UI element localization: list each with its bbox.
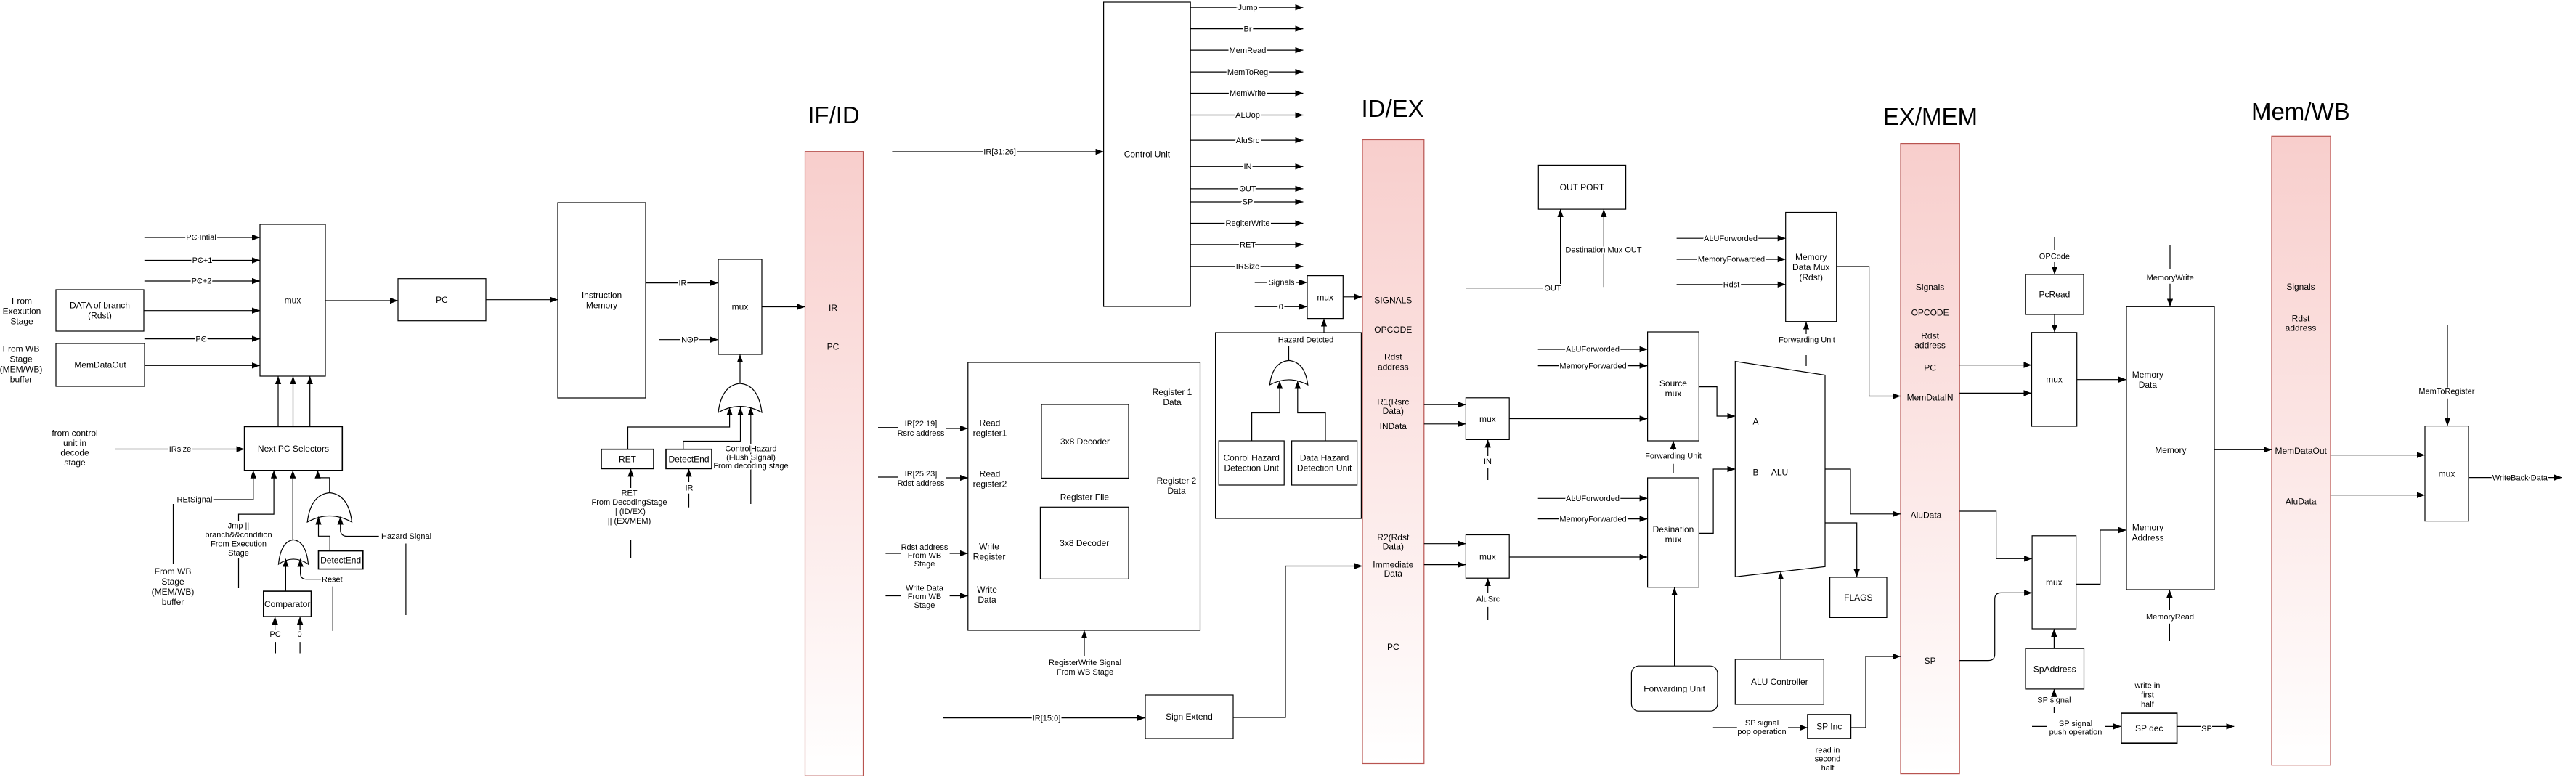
svg-text:ALU Controller: ALU Controller [1751, 677, 1808, 687]
svg-text:PC: PC [1924, 363, 1936, 373]
wire gate2 to selectors [318, 471, 330, 493]
svg-text:mux: mux [285, 296, 301, 306]
net label PC+2 [192, 277, 212, 286]
port label Read register1 [973, 418, 1007, 439]
svg-text:mux: mux [732, 302, 749, 312]
svg-text:Br: Br [1244, 25, 1252, 33]
block MemDataOut [56, 343, 145, 386]
svg-text:Destination Mux OUT: Destination Mux OUT [1565, 246, 1641, 255]
svg-text:mux: mux [2439, 468, 2455, 479]
svg-text:WriteData: WriteData [977, 585, 997, 605]
port label Write Register [973, 542, 1006, 562]
Mem/WB stage title [2251, 98, 2350, 125]
wire below Hazard Signal [405, 544, 407, 616]
block Hazard Detection outer [1216, 333, 1362, 518]
net label MemoryForwarded mdm [1698, 256, 1765, 264]
svg-text:Forwarding Unit: Forwarding Unit [1645, 452, 1702, 461]
svg-text:ID/EX: ID/EX [1361, 95, 1423, 122]
net label MemoryForwarded src [1559, 362, 1626, 370]
mux WB writeback [2425, 426, 2469, 521]
svg-text:IR: IR [686, 484, 694, 492]
net label Br [1244, 25, 1252, 33]
wire Memory Data Mux to EX/MEM MemDataIN [1837, 267, 1901, 396]
wire below Forwarding Unit mdm [1805, 355, 1807, 366]
ID/EX row label INData [1380, 421, 1407, 431]
wire AluSrc to EX mux2 [1487, 578, 1489, 593]
wire Comparator to gate1 [285, 559, 286, 592]
wire below Forwarding Unit src [1673, 464, 1674, 473]
svg-text:Data HazardDetection Unit: Data HazardDetection Unit [1297, 453, 1352, 473]
wire Source mux to ALU A [1699, 387, 1735, 416]
net label Signals [1268, 278, 1295, 287]
wire below AluSrc [1487, 607, 1489, 620]
annotation RET From DecodingStage [592, 489, 667, 526]
svg-text:Signals: Signals [1268, 278, 1295, 287]
svg-text:DetectEnd: DetectEnd [668, 454, 709, 464]
wire INData to EX mux1 [1424, 423, 1466, 425]
svg-text:SP: SP [1925, 656, 1936, 666]
wire below PC [275, 642, 276, 653]
svg-text:PC: PC [1387, 642, 1399, 652]
wire ALU Controller to ALU [1780, 571, 1781, 659]
wire control signal RET [1190, 244, 1303, 245]
wire mux to PC [325, 300, 398, 301]
wire SpAddress to MEM mux2 [2053, 629, 2055, 648]
ID/EX row label Immediate Data [1373, 560, 1413, 579]
svg-text:PC: PC [195, 335, 206, 343]
svg-text:mux: mux [2046, 375, 2063, 385]
net label OUT [1544, 284, 1561, 293]
or-gate hazard combine [1269, 360, 1308, 385]
net label MemRead [1230, 46, 1267, 55]
wire IRsize into Next PC Selectors [115, 449, 244, 450]
block 3x8 Decoder lower [1040, 507, 1129, 579]
wire below 0 [299, 642, 301, 653]
wire MemoryRead to Memory [2169, 590, 2170, 610]
wire PC to MEM mux [1959, 365, 2031, 366]
svg-text:IRSize: IRSize [1236, 263, 1259, 272]
net label Forwarding Unit src [1645, 452, 1702, 461]
block OUT PORT [1538, 165, 1625, 209]
wire MemDataOut to mux [145, 365, 260, 366]
net label AluSrc [1476, 595, 1500, 603]
wire control signal SP [1190, 201, 1303, 203]
wire above OPCode [2054, 237, 2055, 250]
net label IR[31:26] [983, 148, 1016, 157]
wire ControlHazard to flush gate [750, 407, 752, 504]
wire MemoryForwarded to Desination mux [1538, 518, 1648, 520]
mux Desination [1648, 478, 1699, 587]
svg-text:MemDataOut: MemDataOut [2275, 446, 2328, 456]
EX/MEM stage title [1883, 103, 1978, 130]
svg-text:3x8 Decoder: 3x8 Decoder [1060, 538, 1109, 548]
wire signal mux to ID/EX bar [1343, 296, 1362, 298]
net label RET [1240, 241, 1256, 250]
svg-text:WriteBack Data: WriteBack Data [2492, 473, 2548, 482]
wire Rdst address arrow [950, 553, 968, 554]
mux MEM sp/address [2032, 536, 2076, 629]
wire 0 into signal mux [1255, 306, 1307, 307]
net label MemoryRead [2146, 613, 2194, 622]
block Memory [2126, 306, 2214, 590]
svg-text:MemoryForwarded: MemoryForwarded [1559, 515, 1626, 524]
ID/EX row label Rdst address [1378, 352, 1409, 373]
IF/ID pipeline register bar [805, 152, 864, 776]
svg-text:Control Unit: Control Unit [1124, 150, 1171, 160]
wire SP dec out stub [2177, 725, 2201, 727]
net label Write Data From WB Stage [906, 585, 944, 610]
svg-text:OPCODE: OPCODE [1911, 308, 1949, 318]
net label PC [195, 335, 206, 343]
mux EX operand A [1466, 398, 1509, 440]
svg-text:Next PC Selectors: Next PC Selectors [258, 444, 329, 454]
wire IF mux to IF/ID bar [762, 306, 805, 308]
Mem/WB row label MemDataOut [2275, 446, 2328, 456]
wire control signal IRSize [1190, 266, 1303, 267]
wire PC Intial into mux [145, 237, 260, 238]
block Next PC Selectors [245, 426, 343, 470]
svg-text:Hazard Detcted: Hazard Detcted [1278, 336, 1333, 345]
svg-text:AluSrc: AluSrc [1476, 595, 1500, 603]
net label SP signal push operation [2049, 720, 2102, 737]
or-gate flush [718, 383, 762, 412]
port label Memory Data [2132, 370, 2163, 390]
svg-text:IN: IN [1484, 457, 1492, 466]
svg-text:B: B [1752, 468, 1758, 478]
wire stub SP signal push [2032, 725, 2047, 727]
net label IR[25:23] Rdst address [898, 470, 945, 488]
wire MEM mux2 to Memory Address [2076, 530, 2126, 584]
wire DetectEnd2 to gate2 [319, 517, 330, 551]
block 3x8 Decoder upper [1041, 404, 1129, 478]
net label IN [1244, 163, 1252, 171]
mux signals/hazard [1307, 276, 1343, 319]
wire Rdst to Memory Data Mux [1677, 284, 1786, 285]
svg-text:OPCODE: OPCODE [1374, 325, 1412, 335]
net label RegiterWrite [1226, 219, 1270, 228]
wire stub IR[22:19] [878, 427, 898, 428]
net label Forwarding Unit mdm [1779, 336, 1835, 345]
net label WriteBack Data [2492, 473, 2548, 482]
svg-text:mux: mux [2046, 577, 2063, 587]
wire OPCode to PcRead [2054, 262, 2055, 274]
wire MemoryWrite to Memory [2169, 284, 2171, 307]
wire selector0 to mux [277, 376, 279, 426]
svg-text:PC Intial: PC Intial [186, 234, 216, 243]
ID/EX row label R1(Rsrc Data) [1377, 397, 1409, 417]
wire control signal Br [1190, 28, 1303, 30]
block Forwarding Unit [1631, 666, 1718, 711]
net label SP out [2201, 725, 2212, 733]
wire RET to flush gate [628, 407, 730, 449]
wire Reset to gate1 [301, 559, 321, 579]
EX/MEM row label PC [1924, 363, 1936, 373]
wire Forwarding Unit to Source mux [1673, 441, 1674, 450]
svg-text:MemToReg: MemToReg [1227, 68, 1268, 77]
wire ALU to FLAGS [1825, 523, 1857, 577]
svg-text:3x8 Decoder: 3x8 Decoder [1060, 436, 1110, 447]
ID/EX row label R2(Rdst Data) [1377, 532, 1410, 552]
svg-text:RET: RET [619, 454, 637, 464]
wire MemDataIN to MEM mux [1959, 392, 2031, 394]
svg-text:MemDataIN: MemDataIN [1907, 393, 1954, 403]
wire control signal IN [1190, 166, 1303, 167]
svg-text:INData: INData [1380, 421, 1407, 431]
mux next-PC selector [260, 224, 325, 376]
wire PC into Comparator [275, 617, 276, 630]
ID/EX row label OPCODE [1374, 325, 1412, 335]
svg-text:RET: RET [1240, 241, 1256, 250]
Mem/WB row label Signals [2286, 282, 2315, 292]
wire hazard detected to signal mux [1323, 319, 1325, 333]
svg-text:RegiterWrite: RegiterWrite [1226, 219, 1270, 228]
wire MemoryForwarded to Memory Data Mux [1677, 259, 1786, 260]
svg-text:IR[31:26]: IR[31:26] [983, 148, 1016, 157]
net label IR under DetectEnd [686, 484, 694, 492]
net label OUT [1239, 185, 1256, 194]
svg-text:Comparator: Comparator [264, 599, 310, 609]
wire Jmp to selectors [239, 471, 275, 521]
wire SP signal pop arrow [1788, 727, 1808, 728]
wire Memory MemDataOut to Mem/WB [2214, 449, 2272, 450]
svg-text:InstructionMemory: InstructionMemory [582, 290, 622, 311]
net label Rdst mdm [1723, 281, 1740, 290]
wire NOP to IF mux [659, 339, 718, 341]
wire IR to IF mux [646, 282, 718, 284]
block FLAGS [1830, 577, 1887, 617]
Mem/WB row label Rdst address [2286, 314, 2317, 333]
annotation From WB Stage (MEM/WB) buffer lower [152, 566, 195, 607]
svg-text:SpAddress: SpAddress [2033, 664, 2076, 674]
annotation From Exexution Stage [3, 296, 41, 326]
wire PcRead to MEM mux [2054, 314, 2055, 333]
block Data Hazard Detection Unit [1292, 441, 1357, 485]
svg-text:Forwarding Unit: Forwarding Unit [1779, 336, 1835, 345]
wire control signal ALUop [1190, 115, 1303, 116]
svg-text:NOP: NOP [681, 335, 699, 344]
block SpAddress [2026, 648, 2084, 689]
net label REtSignal [177, 496, 213, 505]
svg-text:Conrol HazardDetection Unit: Conrol HazardDetection Unit [1224, 453, 1280, 473]
wire control signal AluSrc [1190, 139, 1303, 141]
svg-text:PC: PC [269, 630, 280, 639]
svg-text:MemDataOut: MemDataOut [74, 360, 126, 370]
wire DetectEnd to flush gate [683, 407, 741, 449]
net label IR[22:19] Rsrc address [898, 420, 945, 438]
svg-text:EX/MEM: EX/MEM [1883, 103, 1978, 130]
wire IR[22:19] arrow [946, 428, 968, 429]
wire MemDataOut to WB mux [2331, 455, 2425, 456]
svg-text:MemoryRead: MemoryRead [2146, 613, 2194, 622]
block Conrol Hazard Detection Unit [1219, 441, 1284, 485]
svg-text:MemoryAddress: MemoryAddress [2132, 523, 2163, 543]
wire RET source arrow [630, 468, 632, 488]
block DATA of branch (Rdst) [56, 290, 144, 331]
svg-text:MemToRegister: MemToRegister [2418, 388, 2474, 396]
net label PC Intial [186, 234, 216, 243]
mux Source [1648, 332, 1699, 441]
svg-text:Sign Extend: Sign Extend [1166, 712, 1213, 722]
svg-text:SIGNALS: SIGNALS [1374, 296, 1412, 306]
net label ALUop [1235, 111, 1260, 120]
wire AluData to WB mux [2331, 495, 2425, 496]
net label ALUForworded mdm [1704, 235, 1758, 243]
mux Memory Data Mux (Rdst) [1786, 213, 1837, 322]
svg-text:MemoryForwarded: MemoryForwarded [1559, 362, 1626, 370]
svg-text:A: A [1752, 417, 1758, 427]
wire Forwarding Unit box to Desination mux [1674, 587, 1675, 667]
wire below RET annotation [630, 540, 632, 558]
EX/MEM row label Rdst address [1914, 331, 1946, 351]
net label IR[15:0] [1033, 714, 1061, 723]
svg-text:Reset: Reset [322, 575, 343, 584]
net label ControlHazard (Flush Signal) From decoding stage [713, 445, 788, 471]
svg-text:0: 0 [1279, 303, 1283, 312]
svg-text:ALU: ALU [1771, 468, 1788, 478]
port label Write Data [977, 585, 997, 605]
wire selector1 to mux [293, 376, 294, 426]
svg-text:SP signal: SP signal [2037, 696, 2071, 705]
block SP Inc [1808, 715, 1850, 739]
net label MemToRegister [2418, 388, 2474, 396]
wire 0 into Comparator [299, 617, 301, 630]
port label Memory Address [2132, 523, 2163, 543]
net label Reset [322, 575, 343, 584]
wire MEM mux to Memory [2077, 379, 2126, 381]
annotation RegisterWrite Signal From WB Stage [1049, 659, 1121, 677]
wire SP out arrow [2212, 725, 2234, 727]
svg-text:PcRead: PcRead [2039, 290, 2071, 300]
svg-text:SP: SP [2201, 725, 2212, 733]
pin label A [1752, 417, 1758, 427]
svg-text:Signals: Signals [1916, 282, 1944, 293]
ID/EX stage title [1361, 95, 1423, 122]
net label IN [1484, 457, 1492, 466]
ID/EX row label SIGNALS [1374, 296, 1412, 306]
block RET [601, 449, 654, 469]
wire below MemoryRead [2169, 624, 2170, 641]
wire below IR label [688, 494, 690, 508]
EX/MEM row label Signals [1916, 282, 1944, 293]
block DetectEnd [666, 449, 712, 469]
ID/EX pipeline register bar [1362, 140, 1424, 764]
svg-text:PC+1: PC+1 [192, 256, 213, 265]
svg-text:Memory: Memory [2155, 445, 2186, 455]
svg-text:Forwarding Unit: Forwarding Unit [1643, 683, 1705, 693]
wire IR to DetectEnd [688, 468, 690, 482]
wire stub IR[25:23] [878, 476, 898, 478]
net label IRSize [1236, 263, 1259, 272]
wire gate3 up [1288, 346, 1290, 360]
svg-text:ALUForworded: ALUForworded [1704, 235, 1758, 243]
svg-text:IR[15:0]: IR[15:0] [1033, 714, 1061, 723]
wire SP signal push arrow [2105, 725, 2121, 727]
alu ALU [1735, 362, 1825, 577]
net label MemToReg [1227, 68, 1268, 77]
or-gate comparator-reset [279, 540, 309, 564]
svg-text:0: 0 [297, 630, 301, 639]
wire Hazard Signal to gate2 [341, 517, 379, 537]
svg-text:ALUForworded: ALUForworded [1566, 346, 1620, 354]
svg-text:IN: IN [1244, 163, 1252, 171]
wire Destination Mux OUT vertical [1603, 209, 1604, 287]
wire Signals into signal mux [1255, 282, 1307, 283]
wire OUT to OUT PORT [1466, 209, 1561, 288]
net label AluSrc [1236, 137, 1260, 145]
svg-text:mux: mux [1479, 552, 1496, 562]
wire EX mux2 to Desination mux [1509, 556, 1647, 558]
svg-text:Mem/WB: Mem/WB [2251, 98, 2350, 125]
svg-text:FLAGS: FLAGS [1844, 593, 1872, 603]
EX/MEM row label OPCODE [1911, 308, 1949, 318]
wire control signal OUT [1190, 188, 1303, 190]
wire flush gate to IF mux [739, 354, 741, 383]
svg-text:PC+2: PC+2 [192, 277, 212, 286]
svg-text:OUT: OUT [1544, 284, 1561, 293]
svg-text:OUT: OUT [1239, 185, 1256, 194]
annotation write in first half [2134, 681, 2160, 709]
annotation read in second half [1815, 746, 1840, 773]
wire control signal RegiterWrite [1190, 223, 1303, 224]
wire IR[25:23] arrow [946, 477, 968, 479]
block Comparator [264, 591, 312, 617]
wire control signal MemRead [1190, 49, 1303, 51]
svg-text:IR: IR [829, 303, 837, 313]
block DetectEnd lower [319, 551, 363, 569]
net label MemWrite [1230, 89, 1266, 98]
wire below SP signal [2053, 707, 2055, 713]
net label SP [1243, 198, 1254, 207]
wire Conrol Hazard to gate3 [1252, 381, 1280, 442]
svg-text:MemWrite: MemWrite [1230, 89, 1266, 98]
net label SP signal [2037, 696, 2071, 705]
Mem/WB row label AluData [2286, 497, 2317, 507]
mux MEM address/data [2032, 333, 2077, 426]
wire Immediate to EX mux2 [1424, 564, 1466, 566]
wire DATA of branch to mux [144, 310, 260, 312]
svg-text:REtSignal: REtSignal [177, 496, 213, 505]
wire control signal MemWrite [1190, 93, 1303, 94]
wire below REtSignal [173, 504, 174, 564]
or-gate hazard-detectend [307, 493, 352, 523]
block Sign Extend [1145, 695, 1233, 739]
IF/ID row label IR [829, 303, 837, 313]
svg-text:Rdst: Rdst [1723, 281, 1740, 290]
wire below IN [1487, 468, 1489, 480]
wire below Reset [332, 587, 333, 631]
wire ALUForworded to Source mux [1538, 349, 1648, 350]
block Register File outer [968, 362, 1200, 630]
net label PC+1 [192, 256, 213, 265]
annotation Jmp branch condition [205, 521, 272, 558]
wire SP to MEM mux2 [1959, 593, 2032, 660]
svg-text:SP Inc: SP Inc [1816, 722, 1842, 732]
mux EX operand B [1466, 535, 1509, 579]
EX/MEM pipeline register bar [1901, 144, 1959, 774]
svg-text:IF/ID: IF/ID [808, 102, 860, 129]
wire EX mux1 to Source mux [1509, 418, 1647, 420]
svg-text:mux: mux [1317, 292, 1333, 302]
svg-text:DetectEnd: DetectEnd [320, 555, 361, 565]
net label Hazard Signal [381, 532, 431, 541]
IF/ID stage title [808, 102, 860, 129]
IF/ID row label PC [827, 342, 840, 352]
wire stub Rdst address [885, 553, 901, 554]
wire SP signal to SpAddress [2053, 689, 2055, 695]
wire IN to EX mux1 [1487, 439, 1489, 456]
svg-text:ALUForworded: ALUForworded [1566, 495, 1620, 503]
ID/EX row label PC [1387, 642, 1399, 652]
